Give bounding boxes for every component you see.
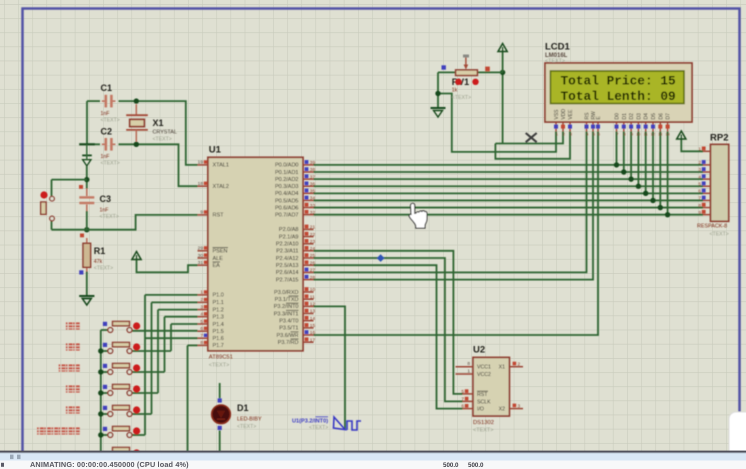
svg-text:<TEXT>: <TEXT> [153, 137, 172, 143]
svg-text:9: 9 [698, 210, 701, 216]
svg-text:11: 11 [644, 133, 648, 137]
svg-text:P1.7: P1.7 [213, 343, 224, 349]
svg-text:XTAL2: XTAL2 [213, 184, 229, 190]
svg-text:31: 31 [198, 260, 204, 266]
svg-text:2: 2 [698, 160, 701, 166]
svg-text:C2: C2 [101, 127, 113, 137]
svg-text:17: 17 [310, 337, 316, 343]
svg-text:39: 39 [310, 160, 316, 166]
svg-text:D1: D1 [237, 403, 249, 413]
svg-text:D1: D1 [622, 113, 628, 120]
svg-text:15: 15 [310, 323, 316, 329]
svg-text:<TEXT>: <TEXT> [473, 428, 493, 434]
svg-text:D7: D7 [666, 113, 672, 120]
svg-text:8: 8 [467, 361, 470, 367]
svg-text:<TEXT>: <TEXT> [101, 161, 120, 167]
svg-text:7: 7 [200, 333, 203, 339]
svg-text:PSEN: PSEN [213, 249, 228, 255]
svg-text:2: 2 [518, 362, 521, 368]
svg-text:ALE: ALE [213, 256, 224, 262]
svg-text:7: 7 [461, 396, 464, 402]
svg-text:32: 32 [310, 210, 316, 216]
svg-text:VCC2: VCC2 [477, 372, 491, 378]
svg-text:C1: C1 [101, 83, 113, 93]
svg-text:11: 11 [310, 294, 315, 300]
svg-text:<TEXT>: <TEXT> [452, 95, 471, 101]
svg-text:P3.6/WR: P3.6/WR [276, 333, 298, 339]
svg-text:R1: R1 [94, 246, 106, 256]
svg-text:U1(P3.2/INT0): U1(P3.2/INT0) [292, 419, 328, 425]
svg-text:23: 23 [310, 239, 316, 245]
svg-text:RST: RST [477, 392, 488, 398]
svg-text:P0.7/AD7: P0.7/AD7 [275, 212, 299, 218]
svg-text:X1: X1 [153, 118, 164, 128]
svg-text:RESPACK-8: RESPACK-8 [697, 224, 727, 230]
svg-text:C3: C3 [100, 194, 112, 204]
svg-text:4: 4 [586, 133, 588, 137]
svg-text:P0.2/AD2: P0.2/AD2 [275, 177, 299, 183]
svg-text:5: 5 [200, 319, 203, 325]
svg-text:16: 16 [310, 330, 316, 336]
svg-text:19: 19 [198, 160, 204, 166]
svg-text:VEE: VEE [568, 109, 574, 120]
svg-text:D2: D2 [629, 113, 635, 120]
svg-text:13: 13 [658, 133, 662, 137]
svg-text:P1.2: P1.2 [213, 307, 224, 313]
svg-text:<TEXT>: <TEXT> [545, 58, 565, 64]
svg-text:1: 1 [556, 133, 558, 137]
svg-text:P3.1/TXD: P3.1/TXD [275, 297, 299, 303]
svg-text:P2.7/A15: P2.7/A15 [276, 277, 299, 283]
svg-text:10: 10 [310, 287, 316, 293]
svg-text:VSS: VSS [554, 109, 560, 120]
svg-text:P2.1/A9: P2.1/A9 [279, 234, 299, 240]
svg-text:D5: D5 [651, 113, 657, 120]
svg-text:D4: D4 [644, 113, 650, 120]
svg-text:LED-BIBY: LED-BIBY [237, 417, 262, 423]
svg-text:8: 8 [624, 133, 626, 137]
svg-text:14: 14 [310, 316, 316, 322]
svg-text:LCD1: LCD1 [545, 42, 571, 53]
svg-text:38: 38 [310, 167, 316, 173]
svg-text:<TEXT>: <TEXT> [309, 425, 328, 431]
svg-text:P1.0: P1.0 [213, 293, 224, 299]
svg-text:Total Price: 15: Total Price: 15 [561, 73, 677, 88]
svg-text:28: 28 [310, 275, 316, 281]
svg-text:33: 33 [310, 203, 316, 209]
svg-text:8: 8 [698, 203, 701, 209]
svg-text:3: 3 [698, 167, 701, 173]
svg-text:6: 6 [598, 133, 600, 137]
svg-text:35: 35 [310, 189, 316, 195]
svg-text:21: 21 [310, 225, 316, 231]
svg-text:30: 30 [198, 253, 204, 259]
svg-text:P2.2/A10: P2.2/A10 [276, 242, 299, 248]
svg-text:P2.3/A11: P2.3/A11 [276, 249, 298, 255]
svg-text:7: 7 [616, 133, 618, 137]
svg-text:VDD: VDD [561, 109, 567, 120]
svg-text:ANIMATING: 00:00:00.450000 (CP: ANIMATING: 00:00:00.450000 (CPU load 4%) [30, 460, 189, 469]
svg-text:P1.4: P1.4 [213, 322, 224, 328]
svg-text:Total Lenth: 09: Total Lenth: 09 [561, 89, 676, 104]
svg-text:34: 34 [310, 196, 316, 202]
svg-text:5: 5 [698, 181, 701, 187]
svg-text:<TEXT>: <TEXT> [710, 232, 729, 238]
svg-text:27: 27 [310, 268, 316, 274]
svg-text:12: 12 [651, 133, 655, 137]
svg-text:P0.4/AD4: P0.4/AD4 [275, 191, 299, 197]
svg-text:U2: U2 [473, 345, 485, 356]
svg-text:RP2: RP2 [710, 133, 728, 144]
svg-text:3: 3 [518, 404, 521, 410]
svg-text:500.0: 500.0 [468, 462, 484, 469]
svg-text:6: 6 [461, 404, 464, 410]
svg-text:P2.5/A13: P2.5/A13 [276, 263, 299, 269]
svg-text:9: 9 [631, 133, 633, 137]
svg-text:25: 25 [310, 253, 316, 259]
svg-text:6: 6 [698, 189, 701, 195]
svg-text:2: 2 [563, 133, 565, 137]
svg-text:P2.6/A14: P2.6/A14 [276, 270, 299, 276]
svg-text:<TEXT>: <TEXT> [101, 118, 120, 124]
svg-text:<TEXT>: <TEXT> [209, 363, 229, 369]
svg-text:P3.0/RXD: P3.0/RXD [274, 290, 298, 296]
svg-text:29: 29 [198, 246, 204, 252]
svg-text:CRYSTAL: CRYSTAL [153, 130, 177, 136]
svg-text:P1.5: P1.5 [213, 329, 224, 335]
svg-text:26: 26 [310, 260, 316, 266]
svg-text:12: 12 [310, 302, 316, 308]
svg-text:EA: EA [213, 263, 221, 269]
svg-text:13: 13 [310, 309, 316, 315]
svg-text:9: 9 [200, 210, 203, 216]
svg-text:P0.6/AD6: P0.6/AD6 [275, 205, 299, 211]
svg-text:P0.1/AD1: P0.1/AD1 [275, 170, 299, 176]
svg-text:D0: D0 [615, 113, 621, 120]
svg-text:18: 18 [198, 181, 204, 187]
svg-text:1k: 1k [452, 88, 458, 94]
svg-text:P3.4/T0: P3.4/T0 [279, 319, 298, 325]
svg-text:1nF: 1nF [100, 208, 109, 214]
svg-text:22: 22 [310, 232, 316, 238]
svg-text:<TEXT>: <TEXT> [94, 266, 113, 272]
svg-text:<TEXT>: <TEXT> [100, 214, 119, 220]
svg-text:14: 14 [665, 133, 669, 137]
svg-text:D6: D6 [658, 113, 664, 120]
svg-text:1: 1 [698, 147, 701, 153]
svg-text:X2: X2 [499, 407, 505, 413]
svg-text:XTAL1: XTAL1 [213, 163, 229, 169]
svg-text:P3.5/T1: P3.5/T1 [279, 326, 298, 332]
svg-text:1: 1 [467, 368, 470, 374]
svg-text:P1.3: P1.3 [213, 315, 224, 321]
svg-text:8: 8 [200, 340, 203, 346]
svg-text:P3.7/RD: P3.7/RD [278, 340, 299, 346]
svg-text:RS: RS [585, 112, 591, 120]
svg-text:P0.3/AD3: P0.3/AD3 [275, 184, 299, 190]
svg-text:DS1302: DS1302 [473, 420, 494, 426]
svg-text:1nF: 1nF [101, 154, 110, 160]
svg-text:7: 7 [698, 196, 701, 202]
svg-text:24: 24 [310, 246, 316, 252]
svg-text:P3.3/INT1: P3.3/INT1 [274, 311, 299, 317]
svg-text:U1: U1 [209, 145, 222, 156]
svg-text:500.0: 500.0 [443, 462, 459, 469]
svg-text:I/O: I/O [477, 407, 484, 413]
svg-text:5: 5 [461, 389, 464, 395]
svg-text:3: 3 [570, 133, 572, 137]
svg-text:47k: 47k [94, 259, 103, 265]
svg-text:SCLK: SCLK [477, 399, 491, 405]
svg-text:36: 36 [310, 181, 316, 187]
svg-text:3: 3 [200, 304, 203, 310]
svg-text:P2.0/A8: P2.0/A8 [279, 227, 299, 233]
svg-text:P1.1: P1.1 [213, 300, 224, 306]
svg-text:RST: RST [213, 213, 225, 219]
svg-text:X1: X1 [499, 365, 505, 371]
svg-text:P0.0/AD0: P0.0/AD0 [275, 163, 299, 169]
svg-text:P0.5/AD5: P0.5/AD5 [275, 198, 299, 204]
svg-text:4: 4 [200, 312, 203, 318]
svg-text:5: 5 [593, 133, 595, 137]
svg-text:<TEXT>: <TEXT> [237, 424, 256, 430]
svg-text:1nF: 1nF [101, 111, 110, 117]
svg-text:P2.4/A12: P2.4/A12 [276, 256, 299, 262]
svg-text:2: 2 [200, 297, 203, 303]
svg-text:P3.2/INT0: P3.2/INT0 [274, 304, 299, 310]
svg-text:D3: D3 [636, 113, 642, 120]
svg-text:1: 1 [200, 290, 203, 296]
svg-text:P1.6: P1.6 [213, 336, 224, 342]
svg-text:6: 6 [200, 326, 203, 332]
svg-text:10: 10 [636, 133, 640, 137]
svg-text:VCC1: VCC1 [477, 365, 491, 371]
svg-text:37: 37 [310, 174, 316, 180]
svg-text:AT89C51: AT89C51 [209, 355, 233, 361]
svg-text:4: 4 [698, 174, 701, 180]
